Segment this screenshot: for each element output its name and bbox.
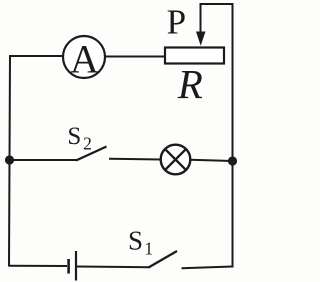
battery negative plate (short): [67, 259, 70, 274]
svg-text:S2: S2: [67, 123, 91, 153]
node: right junction: [228, 156, 237, 165]
wire: left vertical: [9, 55, 10, 267]
wire: right vertical: [232, 3, 234, 268]
svg-text:R: R: [177, 61, 203, 107]
wire: left junction to switch S2: [9, 159, 77, 161]
switch S1 blade: [149, 251, 178, 268]
switch S2 blade: [76, 147, 107, 161]
svg-text:S1: S1: [128, 225, 153, 258]
wire: switch S1 to bottom-right corner: [182, 267, 233, 269]
node: left junction: [5, 155, 14, 164]
wire: switch S2 to lamp: [109, 158, 161, 161]
lamp: [161, 145, 191, 175]
wiper arrowhead: [196, 32, 206, 46]
ammeter A: [63, 36, 105, 82]
wire: ammeter to rheostat: [105, 56, 166, 58]
wire: bottom-left horizontal to battery: [9, 265, 67, 267]
wire: battery to switch S1: [77, 266, 150, 269]
svg-text:P: P: [167, 3, 186, 42]
rheostat R (resistor body): [165, 48, 224, 64]
svg-text:A: A: [70, 37, 99, 82]
wire: top horizontal: [200, 3, 234, 5]
battery positive plate (long): [75, 251, 77, 281]
wire: top-left horizontal to ammeter: [9, 55, 64, 57]
wiper P wire: [200, 4, 202, 33]
wire: lamp to right junction: [190, 160, 233, 161]
